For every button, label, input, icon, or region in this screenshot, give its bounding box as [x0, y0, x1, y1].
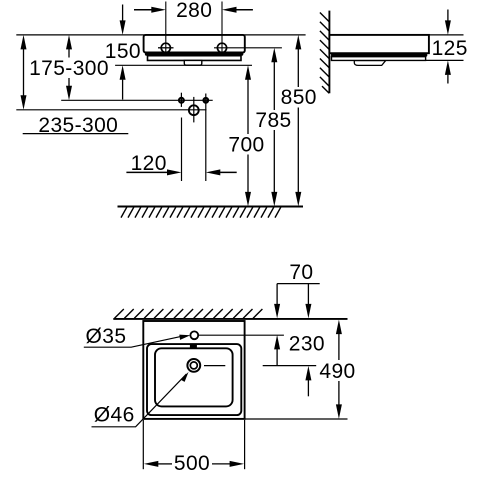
basin body front outline [144, 35, 245, 53]
drain circles plan [187, 359, 200, 372]
line B supply reference [61, 99, 213, 101]
dimension 70 arrows [274, 284, 280, 366]
line C drain reference [16, 109, 206, 111]
svg-text:Ø46: Ø46 [94, 404, 135, 427]
svg-text:850: 850 [281, 86, 317, 109]
drain center line segments [204, 365, 225, 367]
wire top reference line [16, 34, 305, 36]
supply right vertical extension [205, 94, 207, 182]
dimension 235-300 [21, 35, 129, 137]
side bottom extension line [426, 59, 464, 61]
svg-text:280: 280 [176, 0, 212, 22]
drain vertical tick [193, 97, 195, 123]
side wall line [328, 11, 330, 94]
svg-text:230: 230 [289, 332, 325, 355]
svg-text:120: 120 [131, 152, 167, 175]
side drain tab [354, 61, 385, 66]
svg-text:Ø35: Ø35 [86, 325, 127, 348]
dimension 700 [228, 65, 264, 206]
drain tab front [184, 60, 202, 65]
mounting hole left cross [158, 47, 174, 49]
svg-text:500: 500 [174, 452, 210, 475]
ground line [118, 206, 304, 208]
plan outer rect [143, 321, 244, 419]
plan bottom extension line [245, 418, 348, 420]
svg-text:70: 70 [289, 261, 313, 284]
dimension 175-300 [29, 35, 109, 100]
dimension 785 [255, 48, 291, 207]
plan rim rounded rect [147, 344, 241, 415]
dimension 490 [319, 320, 355, 419]
dimension 70 shelf [277, 261, 320, 284]
line A bottom of trap reference [115, 64, 252, 66]
label Ø35 with leader [84, 325, 191, 348]
label Ø46 with leader [92, 372, 189, 427]
dimension 230 [289, 284, 325, 397]
mounting hole right [217, 43, 226, 52]
dimension 280 [134, 0, 253, 22]
supply circle left [179, 98, 184, 103]
dimension 120 [126, 152, 236, 175]
dimension 850 [281, 35, 317, 207]
svg-text:700: 700 [228, 133, 264, 156]
svg-text:490: 490 [319, 360, 355, 383]
tap center line [199, 334, 284, 336]
dimension 500 [143, 420, 244, 475]
side lower tray [332, 57, 426, 61]
svg-text:125: 125 [432, 37, 468, 60]
dimension 125 [432, 10, 468, 84]
side bottom black band [331, 53, 427, 57]
side body outline [329, 35, 429, 53]
tap hole tick on rim [190, 344, 197, 347]
plan inner bowl rect [155, 348, 233, 406]
plan wall line [113, 318, 347, 320]
tap hole circle [190, 331, 198, 339]
mounting hole left [161, 43, 170, 52]
supply circle right [204, 98, 209, 103]
extension below left supply [181, 118, 183, 182]
mounting hole right cross + 785 extension line [214, 47, 282, 49]
basin bottom black band [145, 52, 243, 56]
ground hatch [121, 207, 281, 218]
svg-text:175-300: 175-300 [29, 57, 109, 80]
dimension 150 [105, 5, 141, 100]
svg-text:150: 150 [105, 40, 141, 63]
basin lower tray [148, 56, 242, 61]
supply left vertical tick [180, 93, 182, 107]
side wall hatch [320, 13, 329, 94]
side top extension line [429, 34, 464, 36]
svg-text:785: 785 [255, 109, 291, 132]
plan wall hatch [115, 309, 263, 318]
drain circle front [189, 105, 199, 115]
